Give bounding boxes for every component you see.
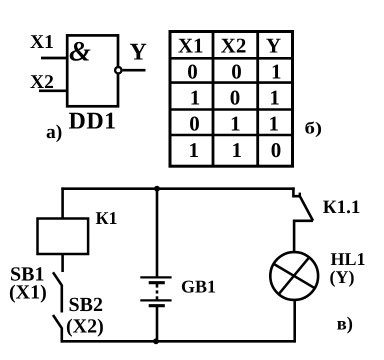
wire input X2 <box>39 89 67 92</box>
battery GB1 cell 2 short plate <box>149 304 165 307</box>
svg-text:(X1): (X1) <box>9 282 47 304</box>
truth table row divider 3 <box>170 108 293 111</box>
svg-text:0: 0 <box>231 60 242 84</box>
wire bottom bus <box>61 340 296 343</box>
wire input X1 <box>41 57 67 60</box>
contact K1.1 fixed hook <box>299 193 301 198</box>
lamp HL1 cross line 1 <box>274 264 315 288</box>
battery GB1 cell 2 long plate <box>140 299 171 301</box>
svg-text:GB1: GB1 <box>181 277 216 297</box>
wire top bus <box>61 187 294 190</box>
lamp HL1 cross line 2 <box>279 258 309 295</box>
truth table outer border <box>170 32 293 167</box>
svg-text:0: 0 <box>271 138 282 162</box>
svg-text:К1.1: К1.1 <box>323 197 361 218</box>
svg-text:в): в) <box>337 314 353 334</box>
svg-text:X1: X1 <box>178 33 204 57</box>
svg-text:(Y): (Y) <box>330 267 355 287</box>
truth table column divider 2 <box>256 32 259 167</box>
node junction bottom <box>153 338 159 344</box>
lamp HL1 circle <box>270 252 318 300</box>
wire SB2 to bottom bus <box>60 328 63 343</box>
switch SB2 blade <box>53 315 62 328</box>
wire battery top lead <box>156 189 159 277</box>
svg-text:0: 0 <box>230 86 241 110</box>
truth table row divider 1 <box>170 57 293 60</box>
battery dashed link stub upper <box>156 284 159 288</box>
truth table row divider 4 <box>170 134 293 137</box>
svg-text:1: 1 <box>268 111 279 135</box>
battery GB1 cell 1 short plate <box>149 281 165 284</box>
svg-text:Y: Y <box>130 40 147 66</box>
svg-text:HL1: HL1 <box>331 249 366 269</box>
svg-text:X1: X1 <box>30 32 54 53</box>
switch SB1 blade <box>53 272 62 285</box>
battery GB1 cell 1 long plate <box>140 276 171 278</box>
wire left drop to relay <box>61 187 64 218</box>
truth table row divider 2 <box>170 81 293 84</box>
svg-text:X2: X2 <box>221 33 247 57</box>
inversion bubble <box>115 67 121 73</box>
svg-text:1: 1 <box>190 86 201 110</box>
svg-text:1: 1 <box>230 111 241 135</box>
battery dashed link stub lower <box>156 296 159 300</box>
svg-text:а): а) <box>46 122 62 143</box>
svg-text:Y: Y <box>266 33 281 57</box>
relay coil K1 <box>38 219 89 255</box>
wire right drop to contact <box>293 187 300 196</box>
truth table column divider 1 <box>212 32 215 167</box>
svg-text:(X2): (X2) <box>66 316 104 338</box>
wire SB1 to SB2 <box>60 285 63 313</box>
svg-text:б): б) <box>305 118 323 137</box>
logic gate DD1 body <box>67 35 118 106</box>
contact K1.1 blade <box>300 197 313 221</box>
wire battery bottom lead <box>156 307 159 342</box>
wire lamp to bottom bus <box>293 300 296 343</box>
svg-text:1: 1 <box>231 138 242 162</box>
svg-text:0: 0 <box>187 60 198 84</box>
svg-text:1: 1 <box>271 60 282 84</box>
svg-text:0: 0 <box>189 111 200 135</box>
node junction top <box>154 186 160 192</box>
svg-text:SB2: SB2 <box>69 294 103 316</box>
svg-text:1: 1 <box>269 86 280 110</box>
battery dashed link dot <box>156 290 159 293</box>
svg-text:DD1: DD1 <box>69 109 117 135</box>
svg-text:К1: К1 <box>96 208 118 228</box>
svg-text:&: & <box>69 37 91 68</box>
svg-text:1: 1 <box>189 138 200 162</box>
wire output Y <box>123 69 146 72</box>
wire contact to lamp <box>294 221 313 253</box>
wire relay to SB1 <box>61 254 64 272</box>
